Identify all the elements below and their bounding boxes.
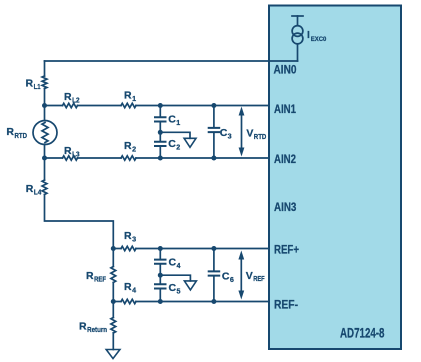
svg-text:C2: C2 <box>168 138 180 152</box>
wire node D to C5 <box>159 275 161 283</box>
junction C3 top on AIN1 net <box>211 103 216 108</box>
wire REF+ node to RREF <box>112 249 114 267</box>
wire node B down to RL4 <box>44 158 46 180</box>
capacitor C4 <box>154 260 167 264</box>
junction C4 top on REF+ net <box>158 246 163 251</box>
resistor RREF <box>111 267 116 283</box>
wire C5 to REF- net <box>159 290 161 302</box>
wire C1 to node C <box>159 123 161 133</box>
wire node D to ground 2 <box>160 275 190 281</box>
svg-text:C4: C4 <box>169 257 181 271</box>
resistor R1 <box>121 103 136 107</box>
wire RL3 to R2 <box>78 157 122 159</box>
svg-text:R1: R1 <box>124 90 136 104</box>
wire left rail top to RL1 <box>44 61 46 76</box>
wire REF+ net to C4 <box>159 249 161 259</box>
wire RReturn to ground <box>112 333 114 350</box>
current source IEXC0 circle 1 <box>292 26 303 37</box>
wire R1 to AIN1 pin <box>136 105 269 107</box>
resistor R3 <box>121 246 136 250</box>
svg-text:RREF: RREF <box>86 270 107 284</box>
junction REF- node at rail <box>111 299 116 304</box>
svg-text:R2: R2 <box>124 140 136 154</box>
wire RL4 to REF+ node corner <box>45 195 114 249</box>
capacitor C3 <box>208 128 221 132</box>
resistor RL1 <box>42 76 47 89</box>
RTD element RRTD circle <box>33 121 57 145</box>
wire node A to RRTD <box>44 106 46 121</box>
svg-text:AD7124-8: AD7124-8 <box>340 324 385 340</box>
wire RL1 to node A <box>44 89 46 106</box>
capacitor C6 <box>208 271 221 275</box>
wire RL2 to R1 <box>78 105 122 107</box>
wire REF- node to R4 <box>113 301 121 303</box>
junction C5 bottom on REF- net <box>158 299 163 304</box>
wire AIN1 net to C1 <box>159 106 161 117</box>
wire node C to C2 <box>159 132 161 140</box>
wire REF- node to RReturn <box>112 302 114 318</box>
ground bottom <box>106 350 120 359</box>
wire AIN1 net to C3 <box>213 106 215 127</box>
current source IEXC0 stem <box>297 16 299 26</box>
resistor RL3 <box>63 156 78 160</box>
VREF arrow head bottom <box>238 291 244 300</box>
svg-text:AIN2: AIN2 <box>274 152 296 166</box>
resistor RReturn <box>111 318 116 334</box>
VRTD arrow head bottom <box>239 148 245 157</box>
svg-text:VREF: VREF <box>246 270 265 283</box>
junction node B (RRTD/RL3/RL4) <box>42 156 47 161</box>
wire C2 to AIN2 net <box>159 147 161 158</box>
svg-text:RL2: RL2 <box>64 91 80 105</box>
wire AIN0 net horizontal <box>45 60 298 62</box>
resistor RL2 <box>63 103 78 107</box>
junction C2 bottom on AIN2 net <box>158 156 163 161</box>
svg-text:AIN0: AIN0 <box>274 63 297 77</box>
svg-text:R4: R4 <box>124 281 136 295</box>
IC U1 AD7124-8 block <box>269 6 401 350</box>
wire R4 to REF- pin <box>136 301 269 303</box>
svg-text:C5: C5 <box>169 282 181 296</box>
svg-text:RL4: RL4 <box>26 183 42 197</box>
junction C1 top on AIN1 net <box>158 103 163 108</box>
resistor R4 <box>121 299 136 303</box>
junction node A (RL1/RL2/RRTD) <box>42 103 47 108</box>
svg-text:R3: R3 <box>124 230 136 244</box>
wire node A to RL2 <box>45 105 63 107</box>
junction node C (C1/C2/gnd) <box>158 130 163 135</box>
ground 1 <box>184 138 196 147</box>
wire RREF to REF- node <box>112 283 114 302</box>
RTD zigzag <box>42 123 48 143</box>
svg-text:RL3: RL3 <box>64 145 80 159</box>
wire C4 to node D <box>159 265 161 275</box>
VRTD arrow head top <box>239 107 245 116</box>
current source IEXC0 circle 2 <box>292 33 303 44</box>
svg-text:REF+: REF+ <box>274 243 299 257</box>
junction C3 bottom on AIN2 net <box>211 156 216 161</box>
capacitor C2 <box>154 142 167 146</box>
capacitor C5 <box>154 284 167 288</box>
junction C6 bottom on REF- net <box>211 299 216 304</box>
junction REF+ node at rail <box>111 246 116 251</box>
svg-text:RReturn: RReturn <box>79 321 107 335</box>
svg-text:C3: C3 <box>220 127 232 141</box>
wire node C to ground 1 <box>160 132 190 138</box>
svg-text:REF-: REF- <box>274 298 298 312</box>
resistor RL4 <box>42 180 47 195</box>
wire REF+ net to C6 <box>213 249 215 271</box>
VREF arrow head top <box>238 251 244 260</box>
svg-text:AIN1: AIN1 <box>274 102 296 116</box>
capacitor C1 <box>154 117 167 121</box>
junction C6 top on REF+ net <box>211 246 216 251</box>
VRTD arrow shaft <box>241 113 243 149</box>
wire current source to AIN0 net <box>297 44 299 61</box>
svg-text:C1: C1 <box>168 113 180 127</box>
wire node B to RL3 <box>45 157 63 159</box>
wire RRTD to node B <box>44 145 46 159</box>
wire R3 to REF+ pin <box>136 248 269 250</box>
svg-text:VRTD: VRTD <box>246 128 266 141</box>
wire C6 to REF- net <box>213 277 215 302</box>
svg-text:C6: C6 <box>222 271 234 285</box>
resistor R2 <box>121 156 136 160</box>
svg-text:RL1: RL1 <box>26 78 41 92</box>
VREF arrow shaft <box>240 257 242 293</box>
current source IEXC0 top bar <box>292 15 303 17</box>
wire R2 to AIN2 pin <box>136 157 269 159</box>
svg-text:AIN3: AIN3 <box>274 200 297 214</box>
junction node D (C4/C5/gnd) <box>158 273 163 278</box>
wire REF+ node to R3 <box>113 248 121 250</box>
svg-text:RRTD: RRTD <box>6 126 27 140</box>
ground 2 <box>184 281 196 290</box>
wire C3 to AIN2 net <box>213 133 215 158</box>
